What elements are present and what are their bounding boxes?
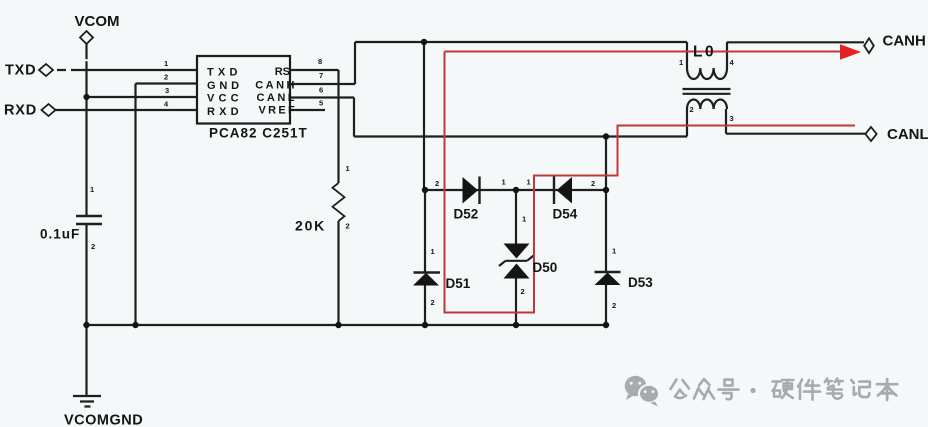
svg-text:2: 2 <box>431 298 435 307</box>
svg-text:RXD: RXD <box>4 103 37 119</box>
svg-text:VCOMGND: VCOMGND <box>64 413 143 427</box>
svg-text:7: 7 <box>319 71 323 80</box>
svg-text:RS: RS <box>275 66 290 78</box>
svg-text:CANL: CANL <box>256 92 297 104</box>
svg-text:2: 2 <box>690 105 694 114</box>
svg-text:1: 1 <box>679 58 683 67</box>
svg-text:1: 1 <box>502 178 506 187</box>
svg-text:2: 2 <box>346 222 350 231</box>
svg-text:1: 1 <box>164 59 168 68</box>
svg-text:0.1uF: 0.1uF <box>40 227 80 242</box>
svg-text:CANL: CANL <box>887 126 928 143</box>
svg-text:GND: GND <box>207 80 243 92</box>
svg-text:RXD: RXD <box>207 106 243 118</box>
svg-text:2: 2 <box>91 242 95 251</box>
svg-text:1: 1 <box>346 164 350 173</box>
svg-text:5: 5 <box>319 99 323 108</box>
svg-text:20K: 20K <box>295 218 326 234</box>
svg-text:2: 2 <box>435 179 439 188</box>
svg-text:6: 6 <box>319 86 323 95</box>
svg-text:1: 1 <box>527 178 531 187</box>
svg-text:1: 1 <box>431 247 435 256</box>
svg-text:D51: D51 <box>446 276 471 291</box>
svg-text:D54: D54 <box>553 207 578 222</box>
svg-text:VREF: VREF <box>258 105 297 117</box>
svg-text:2: 2 <box>591 179 595 188</box>
svg-text:3: 3 <box>730 114 734 123</box>
svg-text:1: 1 <box>612 247 616 256</box>
svg-text:8: 8 <box>318 57 322 66</box>
svg-text:PCA82 C251T: PCA82 C251T <box>209 126 308 141</box>
svg-text:2: 2 <box>164 73 168 82</box>
svg-text:D53: D53 <box>628 275 653 290</box>
svg-text:2: 2 <box>612 301 616 310</box>
svg-text:TXD: TXD <box>207 67 242 79</box>
svg-text:D52: D52 <box>454 207 479 222</box>
svg-text:1: 1 <box>522 215 526 224</box>
svg-text:CANH: CANH <box>255 80 297 92</box>
svg-text:D50: D50 <box>533 260 558 275</box>
svg-text:VCOM: VCOM <box>75 13 120 30</box>
svg-text:3: 3 <box>165 86 169 95</box>
svg-text:VCC: VCC <box>207 93 243 105</box>
svg-text:TXD: TXD <box>5 63 36 79</box>
svg-text:CANH: CANH <box>883 33 926 50</box>
svg-text:2: 2 <box>521 287 525 296</box>
svg-text:1: 1 <box>90 185 94 194</box>
svg-text:L0: L0 <box>693 44 716 61</box>
